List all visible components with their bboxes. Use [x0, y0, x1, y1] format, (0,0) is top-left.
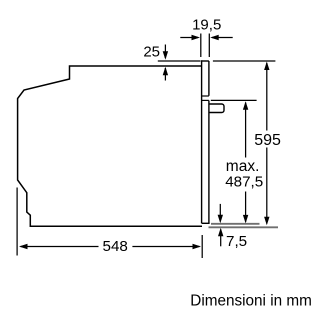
svg-text:25: 25: [143, 44, 160, 61]
dim 548 line left arrow: [19, 244, 99, 249]
oven door / front panel: [202, 60, 210, 223]
svg-text:19,5: 19,5: [192, 17, 221, 34]
handle extension line: [211, 99, 257, 101]
svg-text:487,5: 487,5: [225, 173, 263, 190]
dim 548 line right arrow: [132, 244, 201, 249]
dim 19,5 extension lines: [201, 34, 210, 58]
svg-text:Dimensioni in mm: Dimensioni in mm: [190, 293, 312, 310]
dim 7,5 up arrow: [218, 228, 223, 247]
svg-text:7,5: 7,5: [226, 233, 247, 250]
dim 595 line upper: [264, 62, 269, 131]
dim max 487,5 line lower: [243, 192, 248, 224]
niche floor line upper (gray): [211, 223, 260, 225]
dim 19,5 left arrow: [180, 35, 200, 40]
svg-text:595: 595: [254, 132, 281, 149]
door-top extension line left: [158, 60, 201, 62]
door-top extension line right: [213, 60, 276, 62]
niche floor line lower (gray): [209, 226, 279, 228]
dim 7,5 down arrow: [218, 204, 223, 223]
dim 25 up arrow: [163, 67, 168, 81]
door handle: [209, 104, 224, 113]
svg-text:548: 548: [103, 238, 128, 255]
dim 548 extension line left: [16, 188, 18, 256]
dim 25 down arrow: [163, 45, 168, 60]
dim 19,5 right arrow: [210, 35, 233, 40]
oven body outline: [18, 66, 202, 226]
dim 595 line lower: [264, 148, 269, 226]
dim 548 extension line right: [201, 235, 203, 258]
dim max 487,5 line upper: [243, 101, 248, 157]
door vent slot lines: [202, 96, 209, 100]
